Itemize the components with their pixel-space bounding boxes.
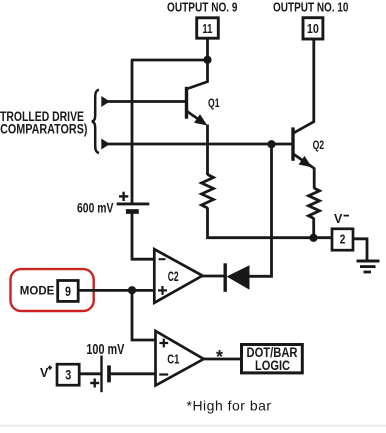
- pin box 9 (MODE): [58, 281, 78, 302]
- wire: C1 output to DOT/BAR LOGIC: [203, 358, 241, 361]
- node: Q1 collector junction: [203, 56, 211, 64]
- resistor R2 (Q2 emitter): [309, 188, 320, 219]
- svg-text:2: 2: [340, 232, 346, 247]
- transistor Q1: [187, 60, 209, 175]
- label V+: [40, 366, 52, 381]
- wire: R1 bottom to V- rail: [208, 208, 332, 238]
- svg-text:V: V: [334, 212, 343, 226]
- op-amp C2 (comparator): [154, 249, 202, 303]
- svg-text:V: V: [40, 366, 49, 380]
- svg-text:10: 10: [307, 21, 319, 36]
- svg-text:C1: C1: [167, 351, 179, 366]
- svg-text:*High for bar: *High for bar: [187, 397, 272, 413]
- wire: R2 bottom to V- node: [312, 218, 315, 238]
- svg-text:LOGIC: LOGIC: [255, 358, 290, 373]
- faint page rule: [0, 425, 386, 427]
- label V-: [334, 212, 349, 226]
- svg-text:3: 3: [65, 366, 71, 382]
- svg-text:*: *: [216, 347, 223, 367]
- pin box 10 (OUTPUT NO. 10): [303, 18, 323, 39]
- wire: vertical 600mV branch: [131, 60, 134, 203]
- wire: box 2 to ground: [353, 239, 367, 260]
- wire: MODE to C2 non-inverting input: [80, 289, 155, 292]
- wire: MODE node down to C1 non-inverting input: [132, 290, 157, 340]
- node: Q2 base junction: [267, 140, 275, 148]
- svg-text:C2: C2: [168, 268, 179, 284]
- pin box 11 (OUTPUT NO. 9): [197, 18, 219, 38]
- battery 600 mV: [117, 192, 150, 212]
- input arrow 2: [101, 139, 110, 150]
- svg-text:Q1: Q1: [208, 98, 220, 110]
- wire: box 11 down to Q1 collector node: [206, 39, 209, 60]
- block DOT/BAR LOGIC: [242, 345, 303, 373]
- wire: comparator drive 2 to Q2 base: [105, 143, 293, 146]
- wire: battery to C2 inverting input: [132, 212, 155, 259]
- ground: [357, 261, 380, 272]
- node: MODE junction: [128, 286, 136, 294]
- svg-text:OUTPUT NO. 9: OUTPUT NO. 9: [167, 0, 238, 15]
- svg-text:MODE: MODE: [20, 284, 55, 298]
- wire: box 3 to battery: [79, 372, 101, 375]
- input arrow 1: [101, 96, 110, 107]
- brace: [92, 90, 99, 153]
- wire: comparator drive 1 to Q1 base: [105, 100, 187, 103]
- battery 100 mV: [90, 356, 109, 393]
- pin box 3 (V+): [57, 364, 79, 385]
- svg-text:100 mV: 100 mV: [86, 342, 124, 358]
- svg-text:Q2: Q2: [313, 140, 325, 152]
- svg-text:600 mV: 600 mV: [77, 200, 114, 216]
- pin box 2 (V-): [332, 229, 353, 250]
- node: V- rail junction: [309, 234, 317, 242]
- transistor Q2: [293, 39, 315, 189]
- svg-text:OUTPUT NO. 10: OUTPUT NO. 10: [273, 0, 349, 15]
- diode D1: [225, 263, 249, 292]
- svg-text:11: 11: [202, 21, 212, 36]
- svg-text:(COMPARATORS): (COMPARATORS): [0, 121, 88, 136]
- red highlight around MODE: [11, 269, 94, 311]
- op-amp C1 (comparator): [156, 331, 204, 386]
- wire: diode to Q2 base node: [249, 144, 272, 276]
- wire: C2 output to diode: [202, 275, 224, 278]
- resistor R1 (Q1 emitter): [202, 175, 214, 209]
- wire: node left to 600mV branch: [131, 59, 208, 62]
- svg-text:9: 9: [65, 283, 71, 299]
- wire: battery to C1 inverting input: [109, 372, 157, 375]
